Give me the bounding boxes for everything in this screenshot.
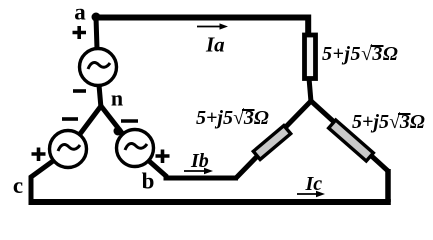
- resistor Zc (lower-right diagonal): [329, 120, 374, 161]
- resistor Zb (lower-left diagonal): [253, 126, 290, 160]
- value label Za: 5+j5sqrt3 ohm: [322, 43, 398, 65]
- svg-text:c: c: [13, 173, 23, 198]
- current label Ia: [205, 33, 225, 57]
- resistor Za (vertical): [305, 35, 316, 79]
- svg-text:b: b: [142, 169, 155, 194]
- wire: right corner down to bottom: [385, 169, 391, 202]
- value label Zc: 5+j5sqrt3 ohm: [352, 111, 425, 133]
- node n: [111, 86, 123, 111]
- label - (phase a): [73, 89, 86, 93]
- label - (phase b source): [121, 119, 138, 123]
- current arrow Ic: [297, 191, 325, 197]
- current label Ic: [305, 173, 323, 195]
- node b label: [142, 169, 155, 194]
- label - (phase c source): [62, 117, 78, 121]
- AC source Uc: [50, 131, 87, 168]
- wire: node a down to source Ua: [96, 17, 97, 49]
- svg-text:n: n: [111, 86, 123, 111]
- svg-text:5+j5√3Ω: 5+j5√3Ω: [352, 111, 425, 133]
- wire top: node a to top-right corner: [96, 18, 308, 35]
- AC source Ua: [80, 49, 117, 86]
- wire: source Ub to node b corner then right: [149, 161, 238, 178]
- junction dot at source Ub terminal: [114, 127, 123, 136]
- label + (phase a): [73, 26, 87, 39]
- wire: star point diagonal down to right corner: [311, 101, 388, 171]
- svg-text:Ib: Ib: [190, 150, 209, 172]
- wire: source Ua down to node n: [99, 85, 101, 108]
- label + (phase c source): [32, 148, 46, 162]
- svg-text:a: a: [74, 0, 86, 25]
- wire: bottom rail c to right corner: [29, 199, 391, 205]
- node a: [92, 13, 101, 22]
- node c label: [13, 173, 23, 198]
- svg-text:5+j5√3Ω: 5+j5√3Ω: [196, 107, 269, 129]
- current label Ib: [190, 150, 209, 172]
- svg-text:5+j5√3Ω: 5+j5√3Ω: [322, 43, 398, 65]
- current arrow Ia: [197, 23, 228, 29]
- wire: node n to source Uc (diagonal): [80, 106, 101, 134]
- wire: node n to source Ub (diagonal): [101, 106, 122, 133]
- wire: star point up to resistor Za: [309, 78, 311, 102]
- AC source Ub: [117, 130, 154, 167]
- wire: phase b diagonal up to star point: [236, 101, 311, 178]
- svg-text:Ic: Ic: [305, 173, 323, 195]
- value label Zb: 5+j5sqrt3 ohm: [196, 107, 269, 129]
- label a: [74, 0, 86, 25]
- label + (phase b source): [156, 150, 170, 164]
- wire: source Uc to node c corner: [31, 161, 53, 202]
- current arrow Ib: [184, 168, 213, 174]
- svg-text:Ia: Ia: [205, 33, 225, 57]
